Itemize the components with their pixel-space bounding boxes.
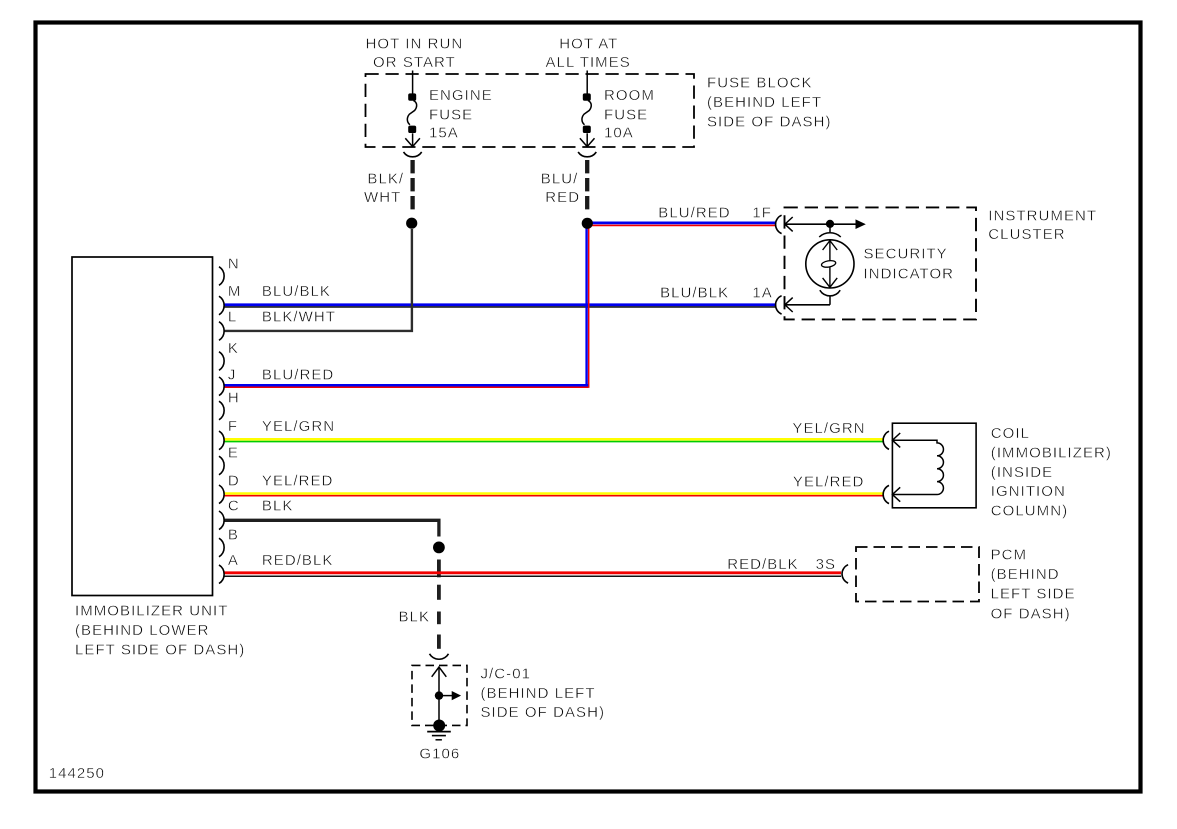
label IMMOBILIZER UNIT	[75, 602, 245, 658]
svg-text:SIDE OF DASH): SIDE OF DASH)	[481, 704, 606, 721]
svg-text:ROOM: ROOM	[604, 87, 655, 104]
svg-text:BLU/RED: BLU/RED	[658, 204, 730, 221]
svg-text:C: C	[228, 498, 240, 515]
label BLU/RED 1F	[658, 204, 772, 221]
junction dot J/C-01	[435, 691, 443, 699]
svg-text:E: E	[228, 445, 239, 462]
svg-text:N: N	[228, 255, 240, 272]
label FUSE BLOCK	[707, 75, 832, 131]
svg-text:A: A	[228, 552, 239, 569]
junction dot BLK	[433, 542, 445, 554]
svg-text:J: J	[228, 367, 237, 384]
wire BLK dashed to J/C-01	[437, 560, 441, 649]
connector bracket coil top	[883, 431, 889, 449]
svg-text:BLU/RED: BLU/RED	[262, 367, 334, 384]
svg-text:15A: 15A	[429, 125, 459, 142]
svg-text:ENGINE: ENGINE	[429, 87, 493, 104]
svg-text:FUSE: FUSE	[604, 106, 648, 123]
wire BLK/WHT fuse lead dashed	[410, 160, 414, 212]
wire BLK/WHT pin L	[224, 229, 412, 331]
svg-text:D: D	[228, 472, 240, 489]
svg-text:K: K	[228, 340, 239, 357]
pin C connector	[219, 511, 224, 530]
svg-text:(INSIDE: (INSIDE	[991, 464, 1053, 481]
pin L connector	[219, 322, 224, 341]
connector cup below room fuse	[578, 152, 596, 157]
svg-text:IMMOBILIZER UNIT: IMMOBILIZER UNIT	[75, 602, 228, 619]
svg-text:144250: 144250	[49, 765, 105, 782]
pin K connector	[219, 352, 224, 371]
label INSTRUMENT CLUSTER	[988, 207, 1097, 243]
svg-text:WHT: WHT	[364, 189, 401, 206]
connector bracket 1F	[776, 215, 782, 233]
connector cup below engine fuse	[404, 152, 422, 157]
wire BLU/RED fuse lead dashed	[585, 160, 589, 212]
pin B connector	[219, 538, 224, 557]
immobilizer unit box	[72, 257, 213, 596]
wire RED/BLK pin A to PCM 3S	[224, 573, 841, 577]
label RED/BLK 3S	[727, 556, 836, 573]
svg-text:COIL: COIL	[991, 425, 1030, 442]
wire BLU/BLK pin M to cluster 1A	[224, 305, 776, 307]
label ENGINE FUSE 15A	[429, 87, 493, 142]
svg-text:(BEHIND LEFT: (BEHIND LEFT	[707, 94, 822, 111]
pin E connector	[219, 456, 224, 475]
ground terminal dot	[433, 720, 445, 732]
wire YEL/RED pin D to coil	[224, 494, 883, 496]
svg-text:BLU/BLK: BLU/BLK	[660, 285, 729, 302]
svg-text:HOT AT: HOT AT	[559, 36, 618, 53]
svg-text:BLU/: BLU/	[541, 171, 579, 188]
coil box	[892, 423, 976, 508]
svg-text:BLU/BLK: BLU/BLK	[262, 283, 331, 300]
svg-text:10A: 10A	[604, 125, 634, 142]
svg-text:B: B	[228, 527, 239, 544]
label BLK/WHT	[364, 171, 404, 206]
svg-text:HOT IN RUN: HOT IN RUN	[366, 36, 464, 53]
wire BLU/RED junction to cluster 1F	[590, 223, 776, 226]
pin H connector	[219, 401, 224, 420]
svg-text:BLK: BLK	[262, 498, 294, 515]
coil L1 immobilizer winding	[892, 433, 943, 502]
security indicator lamp	[806, 228, 854, 305]
connector bracket 1A	[776, 296, 782, 314]
svg-text:ALL TIMES: ALL TIMES	[546, 54, 631, 71]
label BLU/BLK 1A	[660, 285, 773, 302]
svg-text:(IMMOBILIZER): (IMMOBILIZER)	[991, 445, 1112, 462]
label BLU/RED	[541, 171, 580, 206]
svg-text:M: M	[228, 283, 242, 300]
svg-text:RED/BLK: RED/BLK	[262, 552, 334, 569]
svg-text:RED/BLK: RED/BLK	[727, 556, 799, 573]
pin D connector	[219, 485, 224, 504]
svg-text:PCM: PCM	[991, 547, 1027, 564]
ground G106 symbol	[427, 732, 451, 740]
svg-text:3S: 3S	[816, 556, 836, 573]
wire BLU/RED pin J	[224, 385, 588, 387]
label J/C-01	[481, 665, 606, 721]
svg-text:SIDE OF DASH): SIDE OF DASH)	[707, 114, 832, 131]
label COIL IMMOBILIZER	[991, 425, 1112, 520]
svg-text:(BEHIND LEFT: (BEHIND LEFT	[481, 685, 596, 702]
junction connector J/C-01 box	[412, 665, 467, 725]
fuse block connector box	[366, 74, 695, 147]
label ROOM FUSE 10A	[604, 87, 655, 142]
svg-text:CLUSTER: CLUSTER	[988, 226, 1065, 243]
svg-text:YEL/GRN: YEL/GRN	[262, 418, 335, 435]
svg-text:(BEHIND LOWER: (BEHIND LOWER	[75, 622, 210, 639]
J/C-01 branch arrow	[439, 692, 460, 700]
pin J connector	[219, 377, 224, 396]
svg-text:RED: RED	[545, 189, 580, 206]
svg-text:LEFT SIDE OF DASH): LEFT SIDE OF DASH)	[75, 641, 245, 658]
svg-text:FUSE BLOCK: FUSE BLOCK	[707, 75, 813, 92]
net label HOT AT ALL TIMES	[546, 36, 631, 72]
wire BLU/RED vertical	[587, 229, 589, 388]
svg-text:COLUMN): COLUMN)	[991, 503, 1068, 520]
junction dot BLU/RED	[582, 218, 593, 229]
svg-text:L: L	[228, 309, 237, 326]
instrument cluster box	[785, 207, 977, 319]
wire BLK pin C	[224, 520, 439, 536]
svg-text:F: F	[228, 418, 238, 435]
svg-text:1F: 1F	[752, 204, 772, 221]
svg-text:INDICATOR: INDICATOR	[864, 266, 955, 283]
pin A connector	[219, 565, 224, 584]
connector cup above J/C-01	[430, 654, 449, 659]
fuse F2 ROOM FUSE 10A	[580, 71, 595, 147]
J/C-01 internal wire	[438, 667, 440, 720]
svg-text:YEL/RED: YEL/RED	[262, 472, 334, 489]
pin 1F arrow line	[785, 217, 865, 231]
svg-text:FUSE: FUSE	[429, 106, 473, 123]
net label HOT IN RUN OR START	[366, 36, 464, 72]
pin 1A arrow line	[785, 298, 830, 312]
svg-text:1A: 1A	[752, 285, 772, 302]
pin M connector	[219, 296, 224, 315]
svg-text:OF DASH): OF DASH)	[991, 605, 1071, 622]
fuse F1 ENGINE FUSE 15A	[405, 71, 420, 147]
svg-text:YEL/GRN: YEL/GRN	[792, 420, 865, 437]
svg-text:J/C-01: J/C-01	[481, 665, 531, 682]
svg-text:(BEHIND: (BEHIND	[991, 566, 1060, 583]
svg-text:BLK/: BLK/	[367, 171, 404, 188]
wire YEL/GRN pin F to coil	[224, 439, 883, 441]
svg-text:YEL/RED: YEL/RED	[793, 474, 865, 491]
svg-text:H: H	[228, 390, 240, 407]
svg-text:OR START: OR START	[373, 54, 456, 71]
svg-text:LEFT SIDE: LEFT SIDE	[991, 586, 1076, 603]
J/C-01 up arrow	[432, 667, 447, 677]
connector bracket coil bottom	[883, 485, 889, 503]
svg-text:SECURITY: SECURITY	[864, 246, 948, 263]
svg-text:G106: G106	[419, 746, 460, 763]
svg-text:BLK: BLK	[399, 608, 431, 625]
svg-text:INSTRUMENT: INSTRUMENT	[988, 207, 1097, 224]
svg-text:IGNITION: IGNITION	[991, 483, 1066, 500]
pin F connector	[219, 431, 224, 450]
svg-text:BLK/WHT: BLK/WHT	[262, 309, 336, 326]
connector bracket 3S	[842, 565, 848, 583]
junction dot BLK/WHT	[406, 218, 417, 229]
label SECURITY INDICATOR	[864, 246, 955, 283]
pin N connector	[219, 267, 224, 286]
junction dot cluster	[826, 220, 834, 228]
PCM box	[856, 547, 979, 602]
label PCM	[991, 547, 1076, 623]
